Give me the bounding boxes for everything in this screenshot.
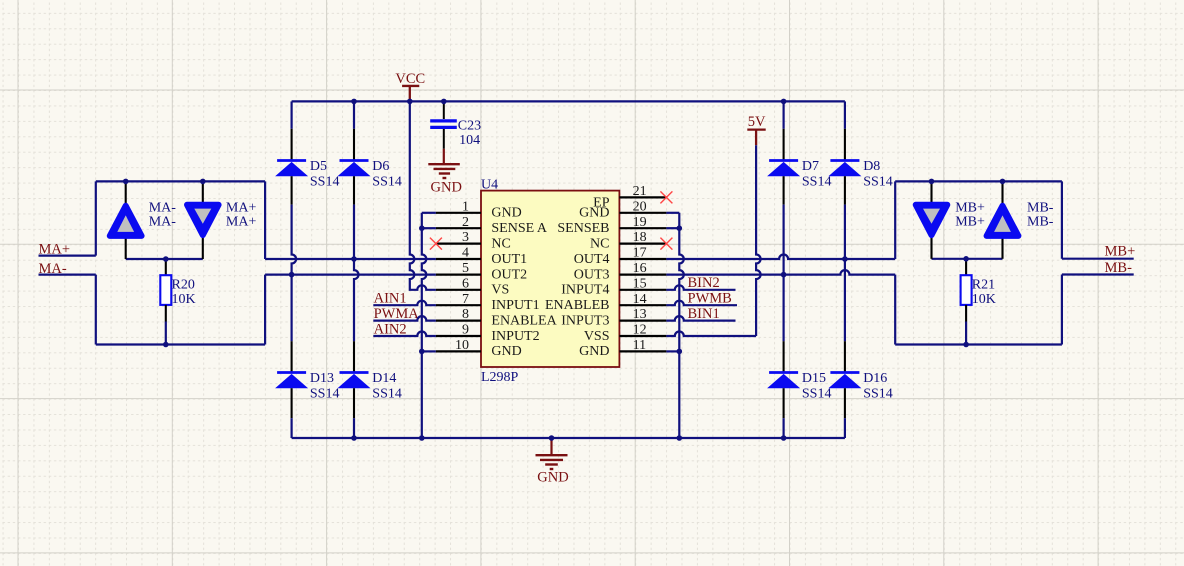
wire PWMA to pin8 — [373, 316, 436, 321]
svg-text:4: 4 — [462, 246, 469, 261]
svg-text:104: 104 — [459, 133, 480, 148]
svg-text:SS14: SS14 — [863, 386, 893, 401]
wire D16 to bottom rail — [844, 418, 846, 438]
wire left box right edge lower — [264, 275, 266, 345]
wire OUT1 (left box to pin4) — [265, 258, 436, 260]
svg-text:C23: C23 — [458, 118, 481, 133]
svg-text:D13: D13 — [310, 371, 334, 386]
wire pin20 to GND column right — [666, 212, 679, 214]
svg-text:GND: GND — [491, 344, 521, 359]
wire D5 column across OUT1 — [292, 205, 297, 275]
svg-text:7: 7 — [462, 292, 469, 307]
IC pin names right — [545, 195, 610, 359]
wire right box top edge — [895, 180, 1062, 182]
junction left box top / MA- LED — [123, 179, 129, 185]
wire D5 to D13 — [291, 275, 293, 342]
junction left box top / MA+ LED — [200, 179, 206, 185]
wire pin19 to GND column right — [666, 227, 679, 229]
svg-text:VCC: VCC — [395, 71, 425, 87]
svg-text:21: 21 — [633, 184, 647, 199]
diode D16 — [828, 341, 892, 418]
wire right box left edge upper — [894, 181, 896, 259]
svg-text:10: 10 — [455, 338, 469, 353]
wire right box right edge lower — [1061, 275, 1063, 345]
diode D5 — [275, 101, 339, 204]
svg-text:NC: NC — [491, 236, 510, 251]
svg-text:ENABLEA: ENABLEA — [491, 313, 557, 328]
svg-text:6: 6 — [462, 276, 469, 291]
wire left box bottom edge — [96, 343, 265, 345]
svg-text:SS14: SS14 — [372, 175, 402, 190]
svg-text:10K: 10K — [972, 292, 996, 307]
svg-text:SS14: SS14 — [802, 386, 832, 401]
svg-text:D5: D5 — [310, 159, 327, 174]
svg-text:MA+: MA+ — [226, 200, 257, 215]
ground symbol GND (C23) — [428, 149, 462, 196]
wire VCC top rail — [292, 100, 845, 102]
wire GND bottom rail — [292, 437, 845, 439]
svg-text:NC: NC — [590, 236, 609, 251]
svg-text:OUT1: OUT1 — [491, 252, 527, 267]
junction bottom rail / GND symbol — [549, 435, 555, 441]
diode D14 — [338, 341, 402, 418]
svg-text:D15: D15 — [802, 371, 826, 386]
junction bottom rail / GND col left — [419, 435, 425, 441]
wire D14 to bottom rail — [353, 418, 355, 438]
wire OUT2 (left box to pin5) — [265, 274, 436, 276]
junction OUT1 / D6 — [351, 256, 357, 262]
junction OUT3 / D7 — [781, 272, 787, 278]
junction OUT2 / D5 — [289, 272, 295, 278]
junction R21 bottom — [963, 342, 969, 348]
junction VCC rail / VCC port — [407, 99, 413, 105]
junction right box top / MB+ LED — [929, 179, 935, 185]
wire BIN1 pin13 — [666, 316, 735, 321]
svg-text:SS14: SS14 — [372, 386, 402, 401]
wire MA+ entry — [39, 255, 96, 257]
svg-text:MA-: MA- — [149, 215, 177, 230]
LED MA- (up triangle) — [110, 181, 176, 259]
svg-text:17: 17 — [633, 246, 647, 261]
wire BIN2 pin15 — [666, 285, 735, 289]
svg-text:MB+: MB+ — [955, 215, 985, 230]
wire MB+ exit — [1062, 258, 1134, 260]
svg-text:18: 18 — [633, 230, 647, 245]
junction VCC rail / D7 — [781, 99, 787, 105]
op-amp U4 L298P IC body — [481, 177, 619, 384]
wire PWMB pin14 — [666, 301, 737, 306]
wire left box left edge upper — [95, 181, 97, 255]
wire D6 column across OUT2 — [354, 259, 359, 341]
svg-text:D7: D7 — [802, 159, 819, 174]
junction pin11 / GND col — [677, 349, 683, 355]
junction pin2 / GND col — [419, 225, 425, 231]
svg-text:20: 20 — [633, 199, 647, 214]
wire left box top edge — [96, 180, 265, 182]
junction OUT4 / D8 — [842, 256, 848, 262]
junction bottom rail / GND col right — [677, 435, 683, 441]
LED MB+ (down triangle) — [916, 181, 985, 258]
svg-text:1: 1 — [462, 199, 469, 214]
wire AIN1 to pin7 — [373, 301, 436, 306]
svg-text:5V: 5V — [748, 114, 766, 130]
power port 5V — [747, 114, 766, 145]
svg-text:MA-: MA- — [149, 200, 177, 215]
svg-text:3: 3 — [462, 230, 469, 245]
svg-text:OUT3: OUT3 — [574, 267, 610, 282]
wire left box left edge lower — [95, 275, 97, 345]
power port VCC — [395, 71, 425, 101]
wire 5V column to pin12 — [756, 145, 761, 336]
wire AIN2 to pin9 — [373, 332, 436, 337]
junction pin10 / GND col — [419, 349, 425, 355]
IC pin stubs left — [436, 213, 481, 352]
svg-text:D16: D16 — [863, 371, 887, 386]
svg-text:13: 13 — [633, 307, 647, 322]
wire pin2 to GND column — [422, 227, 436, 229]
wire D13 to bottom rail — [291, 418, 293, 438]
svg-text:INPUT2: INPUT2 — [491, 329, 539, 344]
diode D15 — [767, 341, 831, 418]
diode D6 — [338, 101, 402, 204]
wire pin11 to GND column right — [666, 350, 679, 352]
IC pin numbers left — [455, 199, 469, 353]
svg-text:12: 12 — [633, 323, 647, 338]
svg-text:VS: VS — [491, 283, 509, 298]
wire D7 to D15 — [782, 275, 784, 342]
svg-text:GND: GND — [537, 470, 568, 486]
wire triangle bottoms (left box) — [126, 258, 203, 260]
wire MB- exit — [1062, 273, 1134, 275]
no connect X pin3 — [430, 238, 442, 250]
svg-text:INPUT3: INPUT3 — [561, 313, 609, 328]
junction bottom rail / D15 — [781, 435, 787, 441]
svg-text:U4: U4 — [481, 177, 498, 192]
no connect X pin18 — [660, 238, 672, 250]
svg-text:INPUT4: INPUT4 — [561, 283, 609, 298]
wire D8 column to OUT4 — [844, 205, 846, 259]
wire pin1 to GND column — [422, 212, 436, 214]
svg-text:MA+: MA+ — [226, 215, 257, 230]
svg-text:GND: GND — [431, 180, 462, 196]
svg-text:GND: GND — [491, 206, 521, 221]
junction R21 top — [963, 256, 969, 262]
wire right box bottom edge — [895, 343, 1062, 345]
svg-text:14: 14 — [633, 292, 647, 307]
junction VCC rail / D6 — [351, 99, 357, 105]
svg-text:OUT4: OUT4 — [574, 252, 610, 267]
svg-text:R21: R21 — [972, 277, 995, 292]
junction pin19 / GND col — [677, 225, 683, 231]
diode D13 — [275, 341, 339, 418]
wire MA- entry — [39, 274, 96, 276]
svg-text:MB+: MB+ — [1105, 243, 1136, 259]
LED MB- (up triangle) — [987, 181, 1054, 258]
svg-text:D14: D14 — [372, 371, 396, 386]
svg-text:MB-: MB- — [1027, 215, 1054, 230]
diode D8 — [828, 101, 892, 204]
svg-text:9: 9 — [462, 323, 469, 338]
svg-text:D8: D8 — [863, 159, 880, 174]
wire pin10 to GND column — [422, 350, 436, 352]
IC pin names left — [491, 206, 557, 360]
svg-text:2: 2 — [462, 215, 469, 230]
wire D8 to D16 — [844, 259, 846, 341]
svg-text:GND: GND — [579, 344, 609, 359]
svg-text:11: 11 — [633, 338, 646, 353]
junction VCC rail / C23 — [441, 99, 447, 105]
junction bottom rail / D14 — [351, 435, 357, 441]
wire D15 to bottom rail — [782, 418, 784, 438]
junction R20 top — [163, 256, 169, 262]
junction R20 bottom — [163, 342, 169, 348]
wire GND right column — [679, 213, 684, 438]
wire D7 column to OUT3 — [782, 205, 784, 275]
svg-text:VSS: VSS — [584, 329, 610, 344]
IC pin numbers right — [633, 184, 647, 353]
IC pin stubs right — [619, 197, 666, 351]
svg-text:L298P: L298P — [481, 370, 519, 385]
svg-text:MB-: MB- — [1027, 200, 1054, 215]
wire triangle bottoms (right box) — [932, 258, 1003, 260]
svg-text:ENABLEB: ENABLEB — [545, 298, 610, 313]
wire left box right edge upper — [264, 181, 266, 259]
svg-text:SS14: SS14 — [802, 175, 832, 190]
svg-text:16: 16 — [633, 261, 647, 276]
resistor R21 — [961, 259, 996, 345]
svg-text:SENSEB: SENSEB — [557, 221, 609, 236]
svg-text:5: 5 — [462, 261, 469, 276]
wire right box left edge lower — [894, 275, 896, 345]
capacitor C23 — [430, 101, 481, 148]
svg-text:OUT2: OUT2 — [491, 267, 527, 282]
wire GND left column — [422, 213, 427, 438]
wire right box right edge upper — [1061, 181, 1063, 258]
diode D7 — [767, 101, 831, 204]
svg-text:SS14: SS14 — [863, 175, 893, 190]
wire VCC column to pin6 — [410, 101, 436, 289]
svg-text:D6: D6 — [372, 159, 389, 174]
svg-text:19: 19 — [633, 215, 647, 230]
wire D6 column to OUT1 — [353, 205, 355, 259]
svg-text:MB+: MB+ — [955, 200, 985, 215]
svg-text:SS14: SS14 — [310, 175, 340, 190]
wire OUT3 (pin16 to right box) — [666, 270, 895, 275]
wire OUT4 (pin17 to right box) — [666, 255, 895, 260]
no connect X pin21 — [660, 191, 672, 203]
junction right box top / MB- LED — [1000, 179, 1006, 185]
svg-text:15: 15 — [633, 276, 647, 291]
svg-text:10K: 10K — [172, 292, 196, 307]
ground symbol GND (bottom) — [536, 438, 569, 486]
svg-text:8: 8 — [462, 307, 469, 322]
wire pin12 to 5V column — [666, 332, 756, 337]
resistor R20 — [160, 259, 195, 345]
LED MA+ (down triangle) — [187, 181, 256, 259]
svg-text:SS14: SS14 — [310, 386, 340, 401]
svg-text:GND: GND — [579, 206, 609, 221]
svg-text:INPUT1: INPUT1 — [491, 298, 539, 313]
svg-text:SENSE A: SENSE A — [491, 221, 548, 236]
svg-text:R20: R20 — [172, 277, 195, 292]
